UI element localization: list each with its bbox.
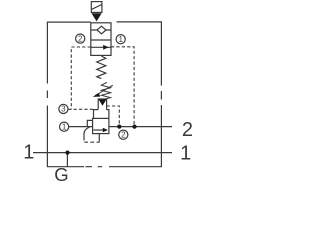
svg-text:1: 1: [62, 122, 67, 131]
svg-text:2: 2: [78, 34, 83, 43]
svg-text:G: G: [54, 164, 68, 185]
svg-text:1: 1: [118, 35, 123, 44]
svg-text:1: 1: [180, 142, 191, 164]
svg-text:2: 2: [121, 130, 126, 139]
svg-text:2: 2: [182, 119, 193, 141]
svg-text:3: 3: [61, 105, 66, 114]
svg-text:1: 1: [23, 142, 34, 164]
